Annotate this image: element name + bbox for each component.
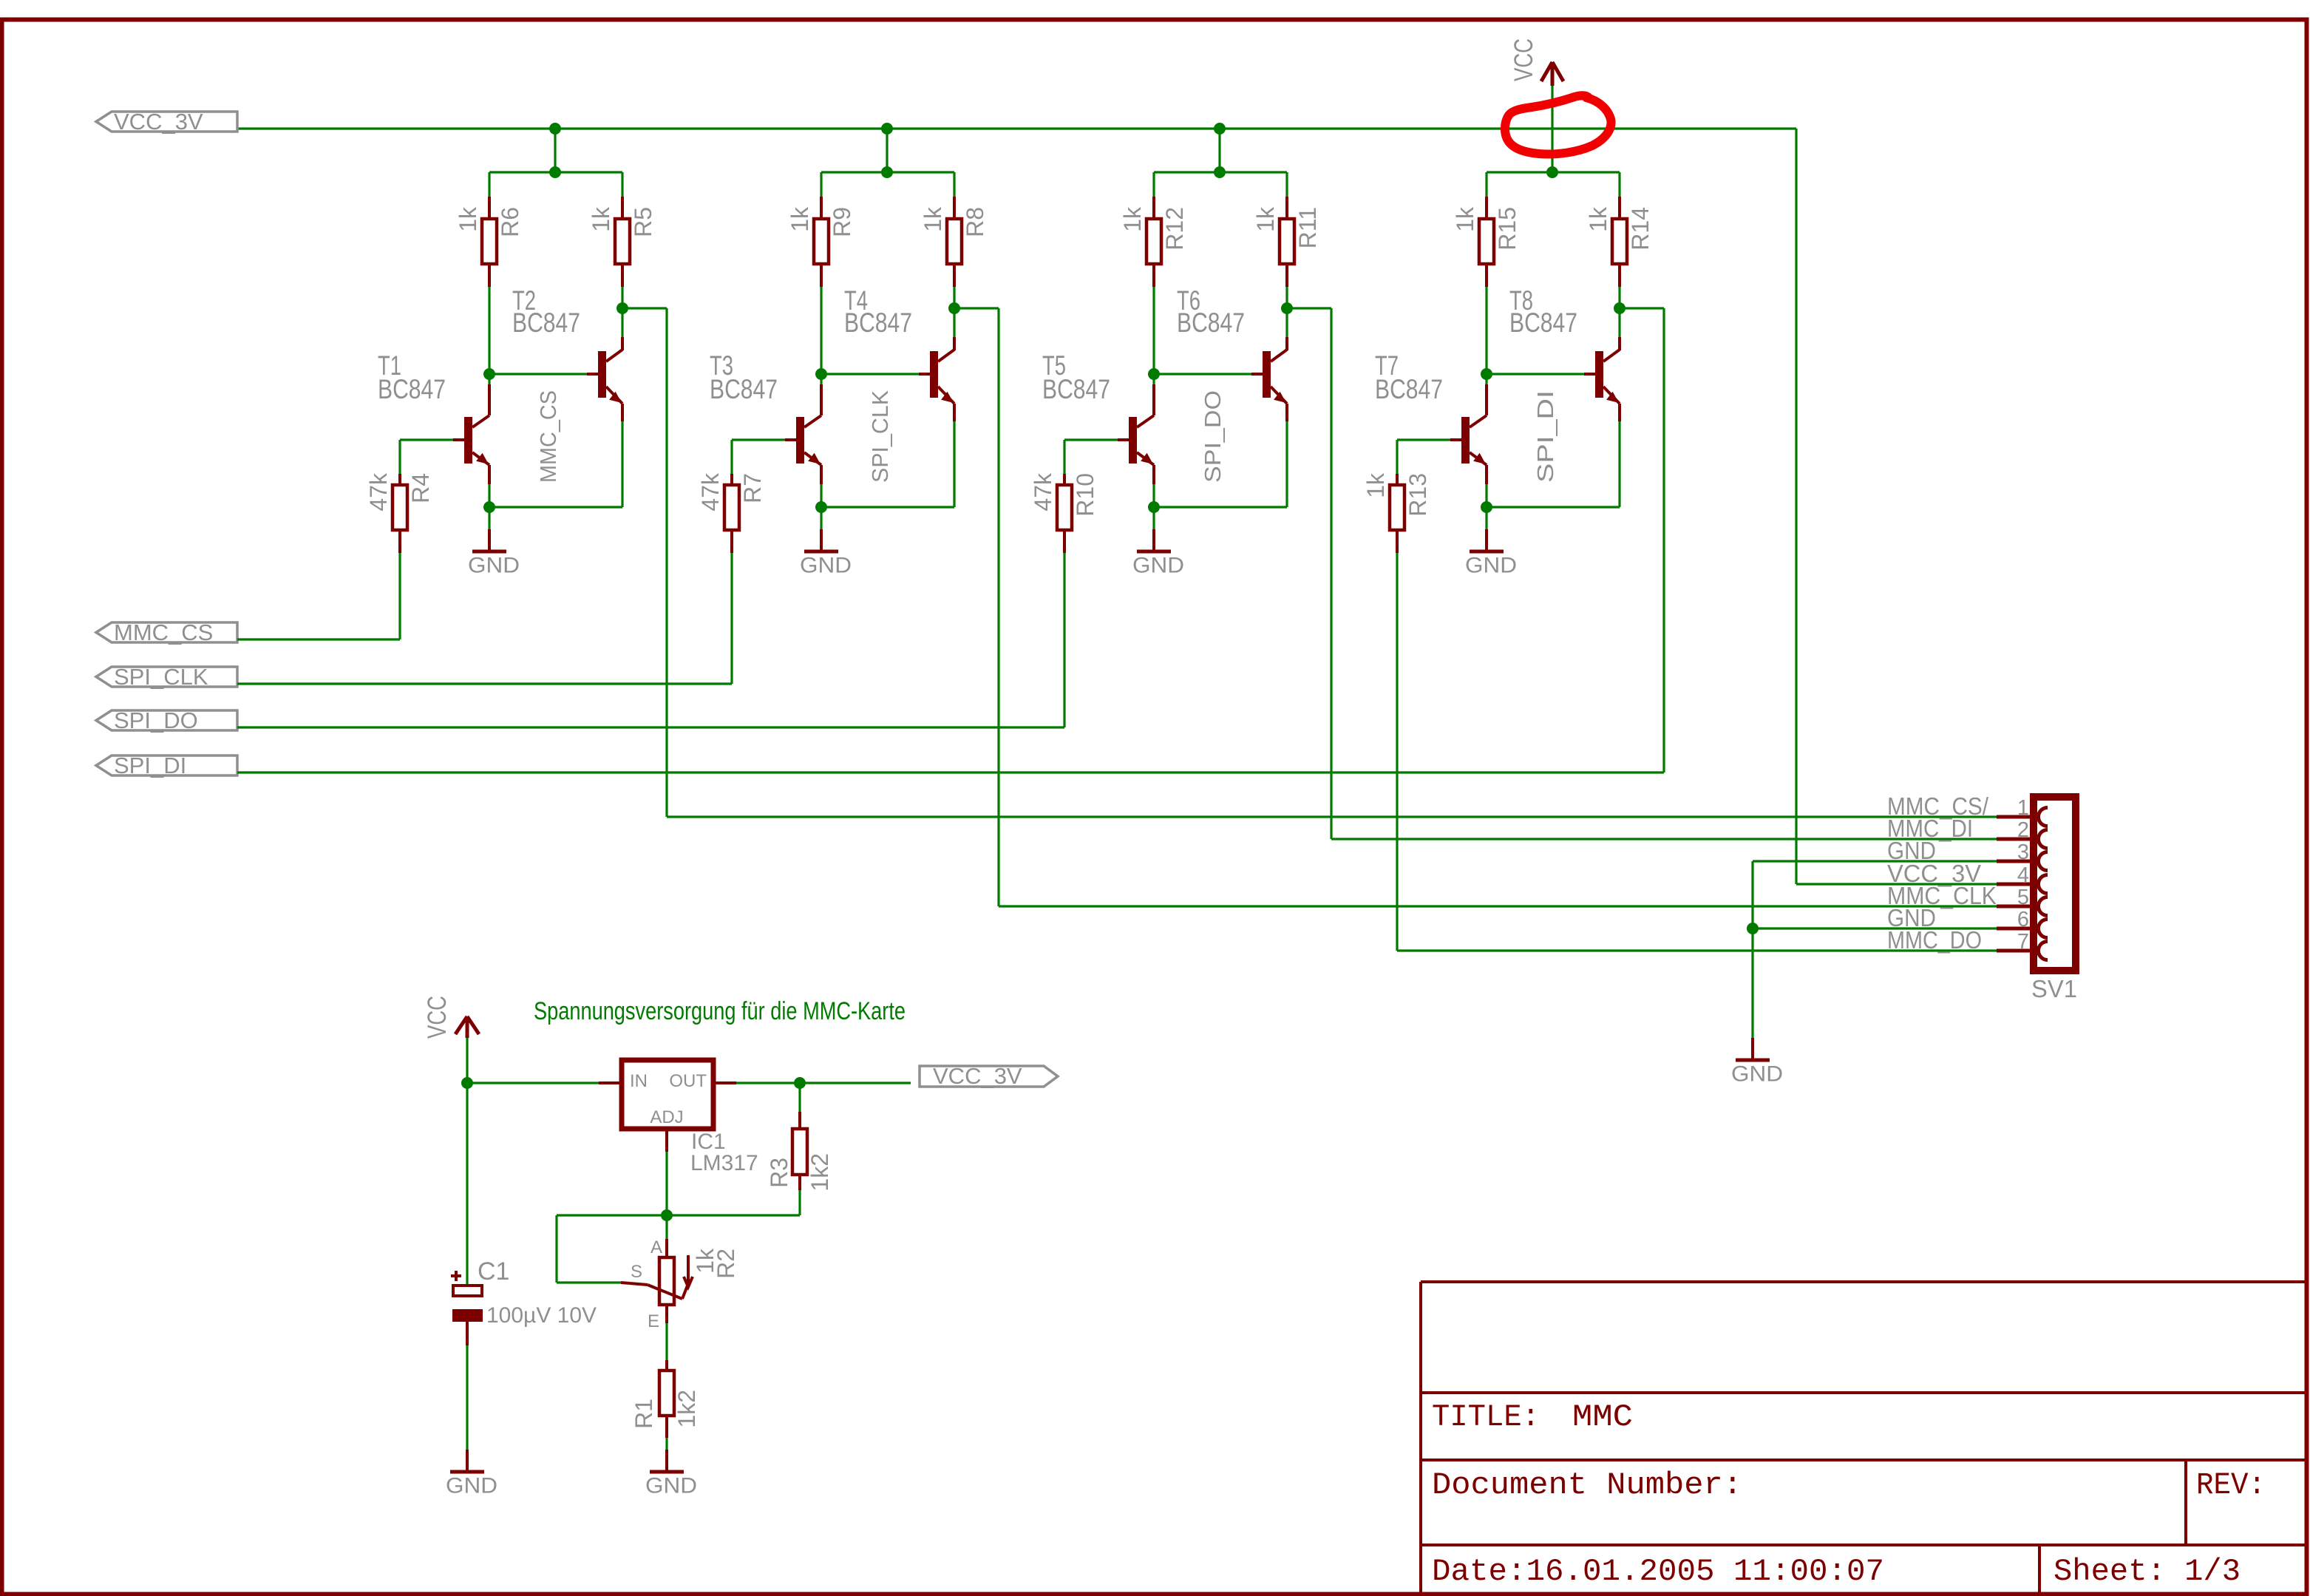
svg-text:BC847: BC847 — [512, 308, 580, 338]
svg-text:1k: 1k — [1585, 206, 1611, 232]
svg-text:R9: R9 — [829, 207, 855, 237]
svg-text:Spannungsversorgung für die MM: Spannungsversorgung für die MMC-Karte — [534, 997, 906, 1025]
svg-text:R11: R11 — [1294, 207, 1321, 248]
svg-text:GND: GND — [1465, 554, 1517, 578]
svg-text:BC847: BC847 — [1042, 374, 1110, 404]
svg-text:GND: GND — [446, 1474, 497, 1498]
svg-text:BC847: BC847 — [1509, 308, 1577, 338]
svg-text:R3: R3 — [766, 1158, 792, 1188]
svg-text:VCC_3V: VCC_3V — [114, 109, 203, 135]
svg-text:ADJ: ADJ — [650, 1107, 683, 1127]
svg-text:BC847: BC847 — [710, 374, 778, 404]
svg-text:1k: 1k — [1252, 206, 1279, 232]
svg-text:1k: 1k — [787, 206, 813, 232]
svg-text:GND: GND — [645, 1474, 697, 1498]
svg-text:S: S — [631, 1262, 642, 1282]
svg-text:TITLE:: TITLE: — [1432, 1399, 1540, 1435]
svg-text:47k: 47k — [365, 472, 392, 512]
svg-text:A: A — [650, 1237, 662, 1257]
svg-text:GND: GND — [800, 554, 852, 578]
svg-text:1k: 1k — [920, 206, 946, 232]
svg-text:R1: R1 — [631, 1399, 657, 1429]
svg-text:R12: R12 — [1161, 207, 1188, 251]
svg-text:6: 6 — [2017, 908, 2029, 931]
svg-text:47k: 47k — [1030, 472, 1056, 512]
svg-text:3: 3 — [2017, 841, 2029, 864]
svg-text:E: E — [648, 1311, 659, 1331]
svg-text:R6: R6 — [497, 207, 523, 237]
svg-text:2: 2 — [2017, 818, 2029, 842]
svg-text:R8: R8 — [962, 207, 988, 237]
svg-text:SV1: SV1 — [2031, 975, 2077, 1002]
svg-text:VCC: VCC — [1509, 38, 1538, 81]
svg-text:1k: 1k — [1119, 206, 1146, 232]
svg-text:IN: IN — [630, 1071, 648, 1091]
svg-text:100µV 10V: 100µV 10V — [486, 1303, 597, 1328]
svg-text:REV:: REV: — [2196, 1467, 2266, 1503]
svg-text:BC847: BC847 — [1375, 374, 1443, 404]
svg-text:R7: R7 — [739, 473, 766, 503]
svg-text:BC847: BC847 — [1177, 308, 1245, 338]
svg-text:R4: R4 — [407, 473, 434, 503]
svg-text:R2: R2 — [713, 1249, 739, 1279]
svg-text:SPI_CLK: SPI_CLK — [114, 664, 208, 690]
svg-text:7: 7 — [2017, 930, 2029, 954]
svg-text:C1: C1 — [478, 1257, 509, 1286]
svg-text:1: 1 — [2017, 796, 2029, 820]
svg-text:SPI_DI: SPI_DI — [114, 753, 186, 778]
svg-text:VCC: VCC — [423, 996, 452, 1039]
svg-text:R15: R15 — [1494, 207, 1521, 251]
svg-text:1k: 1k — [455, 206, 481, 232]
svg-text:R13: R13 — [1404, 473, 1431, 517]
svg-text:MMC_DO: MMC_DO — [1887, 926, 1982, 954]
svg-text:SPI_DO: SPI_DO — [1200, 390, 1226, 483]
svg-text:OUT: OUT — [669, 1071, 707, 1091]
svg-text:47k: 47k — [697, 472, 724, 512]
svg-text:SPI_DI: SPI_DI — [1532, 390, 1558, 483]
svg-text:1k2: 1k2 — [806, 1153, 833, 1192]
svg-text:R10: R10 — [1072, 473, 1098, 517]
svg-text:1k: 1k — [1452, 206, 1478, 232]
svg-text:GND: GND — [1132, 554, 1184, 578]
svg-text:1k: 1k — [1362, 472, 1389, 498]
svg-text:GND: GND — [468, 554, 520, 578]
svg-text:BC847: BC847 — [378, 374, 446, 404]
svg-text:MMC: MMC — [1572, 1399, 1633, 1435]
svg-text:MMC_CS: MMC_CS — [114, 619, 213, 645]
svg-text:SPI_CLK: SPI_CLK — [867, 390, 893, 483]
svg-text:MMC_CS: MMC_CS — [535, 390, 561, 483]
svg-text:1k: 1k — [588, 206, 614, 232]
svg-text:VCC_3V: VCC_3V — [933, 1063, 1022, 1089]
svg-text:SPI_DO: SPI_DO — [114, 707, 198, 733]
svg-text:Document Number:: Document Number: — [1432, 1467, 1742, 1503]
svg-text:Sheet: 1/3: Sheet: 1/3 — [2053, 1554, 2241, 1589]
svg-text:4: 4 — [2017, 863, 2029, 887]
svg-text:GND: GND — [1731, 1062, 1783, 1087]
svg-text:Date:16.01.2005 11:00:07: Date:16.01.2005 11:00:07 — [1432, 1554, 1884, 1589]
svg-text:R5: R5 — [630, 207, 656, 237]
svg-text:LM317: LM317 — [690, 1151, 758, 1175]
svg-text:BC847: BC847 — [844, 308, 912, 338]
svg-text:1k2: 1k2 — [673, 1390, 700, 1428]
svg-text:5: 5 — [2017, 886, 2029, 909]
svg-text:R14: R14 — [1627, 207, 1654, 251]
